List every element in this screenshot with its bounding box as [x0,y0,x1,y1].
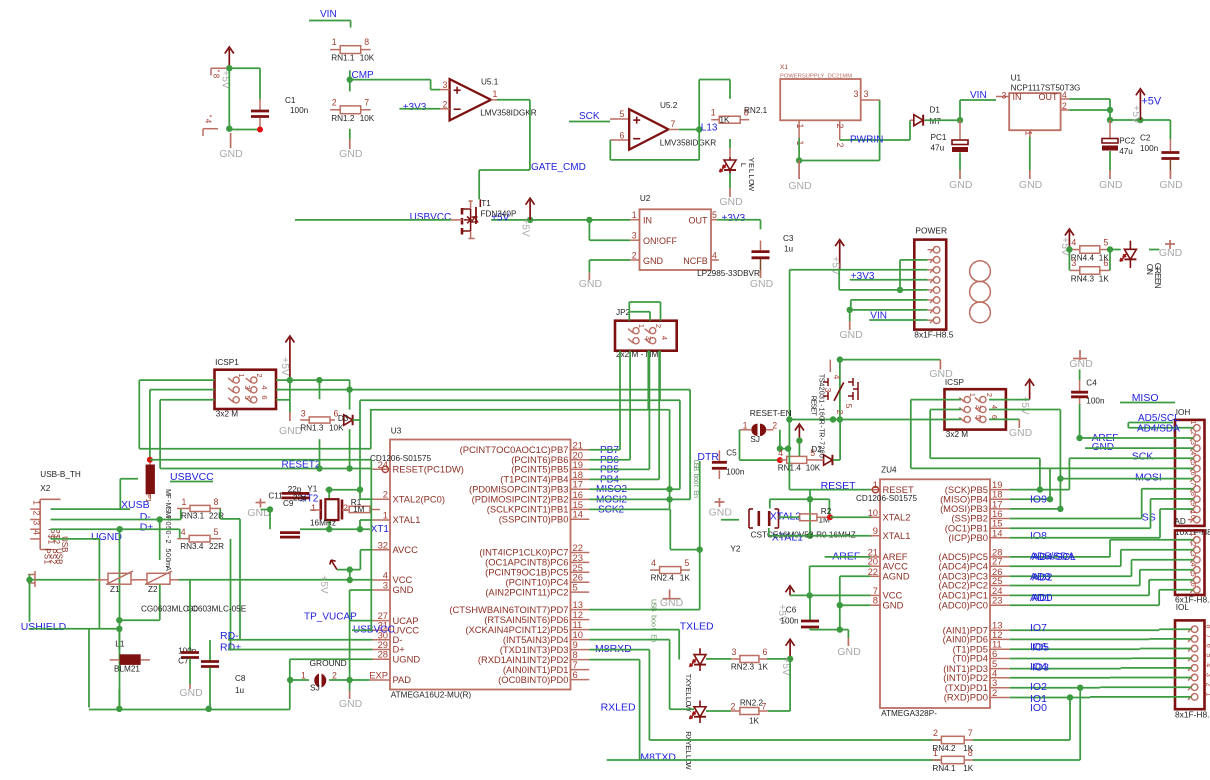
pin 2 of U5.1 [440,108,450,110]
svg-text:GND: GND [949,179,973,191]
svg-text:8: 8 [214,497,219,507]
wire to LED ON [1110,249,1121,251]
svg-text:6: 6 [762,647,767,657]
svg-text:SCK: SCK [1132,451,1154,463]
ground symbol below LED L [729,188,731,197]
svg-text:L: L [747,169,756,173]
wire ICSP1 row3 left to RESET2 [160,399,214,401]
svg-text:10K: 10K [360,54,375,63]
wire XT2 node [325,489,360,491]
svg-text:GND: GND [839,329,863,341]
wire POWER pin2 [900,259,928,261]
wire PD3 to IOL header pin5 [1010,668,1121,670]
svg-text:RN2.3: RN2.3 [731,663,755,672]
svg-text:1: 1 [332,37,337,47]
pin 3 (TXD)PD1 of ZU4 [990,687,1010,689]
svg-text:1: 1 [968,393,977,397]
wire SCK row to IOH pin4 [1039,458,1041,489]
svg-text:2: 2 [255,373,264,377]
svg-text:3: 3 [32,520,42,525]
wire RN4 parallel [1068,250,1070,271]
svg-text:5: 5 [573,582,578,593]
svg-text:4: 4 [181,527,186,537]
svg-text:14: 14 [992,527,1002,538]
varistor Z2 [147,573,170,584]
svg-text:9: 9 [1189,502,1196,506]
svg-text:2: 2 [985,393,994,397]
wire LED ON to GND [1149,249,1159,251]
resistor RN2.4 1K [660,567,681,574]
pin 26 (ADC3)PC3 of ZU4 [990,575,1010,577]
svg-text:JP2: JP2 [616,308,631,317]
svg-text:C3: C3 [783,234,794,243]
pin 5 (INT1)PD3 of ZU4 [990,668,1010,670]
ground symbol ICSP1 [289,412,291,421]
wire IO1 to RN4.2 [1067,694,1073,700]
svg-text:USB-B_TH: USB-B_TH [40,470,81,479]
wire RN3.4 to RD+ [230,539,232,650]
svg-text:1M: 1M [353,505,365,514]
svg-text:SCK: SCK [579,111,600,122]
ground symbol below RN1.2 [349,139,351,149]
svg-text:6: 6 [620,131,625,141]
pin 16 (SS)PB2 of ZU4 [990,518,1010,520]
svg-text:GND: GND [719,196,743,208]
pin 11 (XCKAIN4PCINT12)PD5 of U3 [571,629,590,631]
svg-text:1: 1 [301,671,306,681]
wire JP2 pin3 down [647,351,649,410]
svg-text:ON!OFF: ON!OFF [643,236,677,246]
svg-text:6: 6 [1189,583,1196,587]
capacitor C4 100n [1079,350,1081,360]
capacitor C8 1u [209,640,211,661]
svg-text:n: n [692,494,699,498]
+5V supply arrow at RN1.4 [798,426,800,441]
svg-text:1: 1 [711,108,716,118]
wire IO0 to RN4.1 [1077,685,1083,691]
svg-text:1: 1 [493,89,498,99]
svg-text:100n: 100n [726,468,745,477]
wire RESET-EN pin1 [739,430,741,460]
wire ZU4 PB4 row [1010,498,1050,500]
svg-text:3: 3 [731,647,736,657]
svg-text:4: 4 [660,336,669,340]
LED L yellow [729,148,731,157]
svg-text:3: 3 [632,231,637,241]
wire long row y410 [370,409,670,411]
svg-text:GND: GND [837,646,861,658]
svg-text:LMV358IDGKR: LMV358IDGKR [480,109,537,118]
pin 4 of U1 [1061,98,1070,100]
wire PB1 to IOH pin9 [1010,527,1151,529]
svg-text:7: 7 [671,119,676,129]
svg-text:1K: 1K [680,574,691,583]
wire PD2 to IOL header pin6 [1010,677,1110,679]
wire ADC2 to AD header pin4 [1010,585,1140,587]
svg-text:2: 2 [835,124,845,129]
wire ZU4 PB3 row [1010,508,1061,510]
resistor RN1.4 10K [787,456,807,463]
svg-text:4: 4 [1071,237,1076,247]
svg-text:Y1: Y1 [307,485,317,494]
svg-text:1: 1 [873,479,878,490]
svg-text:E: E [747,163,756,168]
wire VCC row through varistors [30,579,96,581]
wire ICSP pin6 GND [989,418,1019,420]
svg-text:V: V [318,587,329,594]
+5V supply arrow at U1 [1139,91,1141,120]
pin 30 D- of U3 [373,639,391,641]
LED RX yellow [699,701,701,707]
pin 8 GND of ZU4 [870,604,880,606]
wire RN1.2 to GND [349,129,351,139]
wire Z2 to cap node [159,584,161,620]
svg-text:3: 3 [1205,673,1210,677]
wire long row y400 [360,399,680,401]
svg-text:RN3.4: RN3.4 [180,542,204,551]
ground symbol below C1 [230,133,232,148]
svg-text:X2: X2 [40,484,50,493]
svg-text:TP_VUCAP: TP_VUCAP [304,612,357,623]
svg-text:GND: GND [788,180,812,192]
resistor RN1.2 10K [340,106,361,114]
svg-text:5: 5 [712,210,717,220]
wire XTAL loop [807,496,813,502]
+5V supply arrow at ICSP1 [289,338,291,380]
svg-text:3: 3 [1189,441,1196,445]
resistor RN4.2 1K [941,736,964,743]
pin 4 VCC of U3 [373,579,391,581]
capacitor C1 100n [259,99,261,110]
ground symbol C5 [719,498,721,507]
svg-text:8x1F-H8.5: 8x1F-H8.5 [914,330,953,340]
svg-text:3x2 M: 3x2 M [946,430,968,439]
svg-text:100n: 100n [1140,144,1159,153]
wire IOH pin1 [1127,423,1129,428]
svg-text:Z1: Z1 [110,585,120,594]
svg-text:RN3.1: RN3.1 [181,512,205,521]
pin 18 (T1PCINT4)PB4 of U3 [571,478,590,480]
wire to LED L [729,139,731,148]
svg-text:4: 4 [1062,90,1067,100]
wire PWRIN [879,100,881,140]
pin 23 (ADC0)PC0 of ZU4 [990,604,1010,606]
svg-text:2: 2 [1189,431,1196,435]
svg-text:ATMEGA16U2-MU(R): ATMEGA16U2-MU(R) [391,691,472,700]
svg-text:3: 3 [1189,553,1196,557]
ground symbol C2 [1169,170,1171,179]
svg-text:XTAL1: XTAL1 [393,514,421,525]
wire D2 to RESET row [833,459,840,461]
svg-text:AD: AD [1174,517,1185,526]
wire ICSP1 row1 right [276,379,350,381]
svg-text:F: F [144,494,151,498]
wire ZU4 GND [840,604,871,606]
svg-text:1: 1 [32,500,42,505]
pin 28 UGND of U3 [373,658,391,660]
wire RN2.2 loop [789,659,791,711]
svg-text:GND: GND [1019,179,1043,191]
pin 6 (OC0BINT0)PD0 of U3 [571,679,590,681]
ground symbol Y1 [260,499,262,508]
pin 18 (MISO)PB4 of ZU4 [990,498,1010,500]
wire C1 to GND net [229,129,260,131]
wire ICSP pin3 SCK [930,409,961,411]
wire U3 GND down [350,589,373,591]
wire ICSP1 row2 right long [276,389,690,391]
svg-text:PAD: PAD [393,674,412,685]
wire EXP PAD [350,679,370,681]
svg-text:6: 6 [1103,258,1108,268]
svg-text:XTAL2(PC0): XTAL2(PC0) [393,493,445,504]
svg-text:1: 1 [311,503,316,514]
svg-text:4: 4 [712,250,717,260]
resistor RN1.3 10K [309,417,330,423]
wire M8TXD row bottom [607,759,942,761]
svg-text:+: + [318,575,329,581]
pin 25 (PCINT9OC1B)PC5 of U3 [571,571,590,573]
wire RESET2 [160,468,372,470]
svg-text:PC1: PC1 [931,133,947,142]
svg-text:(ICP)PB0: (ICP)PB0 [948,532,988,543]
svg-text:2: 2 [332,97,337,107]
ground symbol SJ [349,680,351,691]
wire ground rail bottom left [89,709,290,711]
svg-text:N: N [1145,269,1154,275]
capacitor C3 1u [760,241,762,251]
pin 4 of U2 [711,259,719,261]
wire +5V rail down to RN1.4 [789,270,791,420]
svg-text:U5.2: U5.2 [660,101,678,110]
svg-text:1: 1 [1189,510,1196,514]
pin 12 (AIN0)PD6 of ZU4 [990,638,1010,640]
power pins symbol U5 (+V pin 8) [211,67,229,69]
svg-text:SS: SS [1142,511,1156,523]
pin 32 AVCC of U3 [373,549,391,551]
fuse F1 MF-MSMF050-2 [146,465,155,495]
wire ICSP pin2 +5V [989,399,1030,401]
wire ICSP1 row2 left to fuse [150,389,215,391]
svg-text:GROUND: GROUND [310,658,347,668]
svg-text:3: 3 [974,405,983,409]
transistor T1 FDN340P [479,199,481,207]
wire GATE_CMD [497,99,530,101]
svg-text:0: 0 [164,553,173,557]
svg-text:ATMEGA328P-: ATMEGA328P- [881,709,937,718]
wire M8RXD row bottom [649,739,941,741]
wire PD5 to IOL header pin3 [1010,648,1140,650]
wire row1 corner down [349,380,351,410]
svg-text:Y2: Y2 [730,545,740,554]
pin 26 (PCINT10)PC4 of U3 [571,581,590,583]
X2 shield bracket [34,571,36,587]
svg-text:5: 5 [1189,461,1196,465]
pin 3 of U2 [630,239,639,241]
svg-text:GND: GND [709,507,733,519]
svg-text:2: 2 [343,503,348,514]
svg-text:2: 2 [164,540,173,544]
svg-text:0: 0 [1189,515,1196,519]
svg-text:W: W [747,184,756,192]
svg-text:5: 5 [1103,237,1108,247]
svg-text:22: 22 [868,566,878,577]
wire AGND [840,575,871,577]
svg-text:B: B [650,607,657,612]
wire AVCC to +5V [810,565,871,567]
svg-text:C9: C9 [283,499,294,508]
svg-text:ZU4: ZU4 [881,466,897,475]
svg-text:2: 2 [32,511,42,516]
capacitor C2 100n [1169,120,1171,139]
wire +3V3 to C3 [717,219,760,221]
svg-text:8x1F-H8.5: 8x1F-H8.5 [1175,710,1210,720]
svg-text:2: 2 [1205,683,1210,687]
svg-text:(RXD)PD0: (RXD)PD0 [944,692,988,703]
svg-text:": " [212,70,221,73]
wire U1 OUT to +5V node [1069,98,1110,100]
svg-text:t: t [692,485,699,487]
svg-text:LP2985-33DBVR: LP2985-33DBVR [697,269,760,278]
svg-text:NCFB: NCFB [683,256,708,266]
pin 4 (INT0)PD2 of ZU4 [990,677,1010,679]
+5V supply arrow at ICSP [1029,381,1031,399]
svg-text:4: 4 [651,558,656,568]
svg-text:C6: C6 [786,606,797,615]
svg-text:100n: 100n [178,647,197,656]
svg-text:POWER: POWER [915,226,947,236]
wire PD0 to IOL header pin8 [1010,697,1090,699]
svg-text:RN2.1: RN2.1 [744,106,768,115]
wire PD1 to IOL header pin7 [1010,687,1100,689]
ground symbol C3 [760,270,762,278]
ground symbol C6 [847,630,849,638]
op-amp U5.2 LMV358IDGKR [629,109,668,149]
+5V supply arrow at RN4.4 [1068,231,1070,250]
svg-text:3: 3 [1071,258,1076,268]
pin 1 RESET of ZU4 [870,489,880,491]
wire PD7 to IOL header pin1 [1010,629,1159,631]
pin 20 (PCINT6)PB6 of U3 [571,459,590,461]
diode D3 [344,415,353,425]
svg-text:GND: GND [1159,247,1183,259]
svg-text:GND: GND [179,687,203,699]
pin 1 XTAL1 of U3 [373,519,391,521]
svg-text:IOL: IOL [1176,603,1190,612]
svg-text:FDN340P: FDN340P [481,210,517,219]
svg-text:IO2: IO2 [1030,681,1047,693]
svg-text:7: 7 [762,702,767,712]
svg-text:32: 32 [378,539,388,550]
svg-text:IO7: IO7 [1030,622,1047,634]
resistor RN2.3 1K [706,658,731,660]
pin 5 of U5.2 [610,118,629,120]
svg-text:GND: GND [750,278,774,290]
wire POWER pin8 VIN [869,319,927,321]
svg-text:LMV358IDGKR: LMV358IDGKR [660,139,717,148]
pin 2 (RXD)PD0 of ZU4 [990,697,1010,699]
svg-text:2x2 M - NM: 2x2 M - NM [616,350,658,359]
svg-text:C4: C4 [1086,378,1097,387]
svg-text:L: L [739,163,748,167]
svg-text:8: 8 [1189,492,1196,496]
svg-text:C2: C2 [1140,134,1151,143]
svg-text:Y: Y [747,157,756,162]
svg-text:L: L [684,750,693,754]
svg-text:6: 6 [573,669,578,680]
svg-text:1K: 1K [758,663,769,672]
wire SCK2 to DTR junction [669,509,671,549]
svg-text:U5.1: U5.1 [481,78,499,87]
svg-text:28: 28 [378,649,388,660]
svg-text:GATE_CMD: GATE_CMD [531,162,586,173]
svg-text:F: F [164,494,173,499]
svg-text:+: + [830,256,841,262]
svg-text:SJ: SJ [750,434,760,444]
wire POWER pin6 GND [851,299,928,301]
svg-text:B: B [55,559,64,564]
svg-text:8: 8 [364,37,369,47]
svg-text:2: 2 [1062,101,1067,111]
diode D1 M7 [910,119,914,121]
ground symbol PC2 [1109,170,1111,179]
svg-text:RN4.3: RN4.3 [1071,274,1095,283]
wire ADC5 to AD header pin1 [1010,556,1110,558]
svg-text:4: 4 [1205,663,1210,667]
svg-text:5: 5 [620,109,625,119]
svg-text:AVCC: AVCC [393,544,419,555]
svg-text:(ADC0)PC0: (ADC0)PC0 [939,599,989,610]
capacitor C7 100n [189,580,191,652]
pin 25 (ADC2)PC2 of ZU4 [990,585,1010,587]
svg-text:7: 7 [364,97,369,107]
svg-text:": " [204,115,213,118]
wire ADC3 to AD header pin3 [1010,575,1132,577]
svg-text:5: 5 [214,527,219,537]
svg-text:GND: GND [643,256,664,266]
svg-text:AD4/SDA: AD4/SDA [1137,424,1180,435]
svg-text:1: 1 [182,497,187,507]
svg-text:5: 5 [1205,654,1210,658]
svg-text:2: 2 [1189,543,1196,547]
pin 7 VCC of ZU4 [870,594,880,596]
svg-text:ICSP1: ICSP1 [215,358,239,367]
ground symbol near DTR [669,590,671,599]
pin 11 (T1)PD5 of ZU4 [990,648,1010,650]
wire VIN to U1 [959,100,961,120]
wire POWER pin5 [838,270,840,290]
pin 27 UCAP of U3 [373,620,391,622]
pin 3 of U5.1 [440,89,450,91]
wire X1 pin1 to GND [798,138,800,161]
wire JP2 stubs above [628,302,630,321]
svg-text:2: 2 [654,324,663,328]
svg-text:8: 8 [873,595,878,606]
pin 22 AGND of ZU4 [870,575,880,577]
wire MISO row to IOH pin5 [911,467,1194,469]
pin 3 of U1 [996,96,1009,98]
svg-text:7: 7 [968,728,973,738]
svg-text:GND: GND [339,698,363,710]
pin 14 (ICP)PB0 of ZU4 [990,537,1010,539]
capacitor PC1 47u [959,120,961,139]
resistor RN3.1 22R [190,505,210,511]
resistor RN2.1 1K [719,116,740,123]
svg-text:23: 23 [992,595,1002,606]
ground symbol T2 [939,360,941,370]
svg-text:o: o [650,623,657,627]
svg-text:RD+: RD+ [220,642,241,654]
svg-text:IO0: IO0 [1030,702,1047,714]
